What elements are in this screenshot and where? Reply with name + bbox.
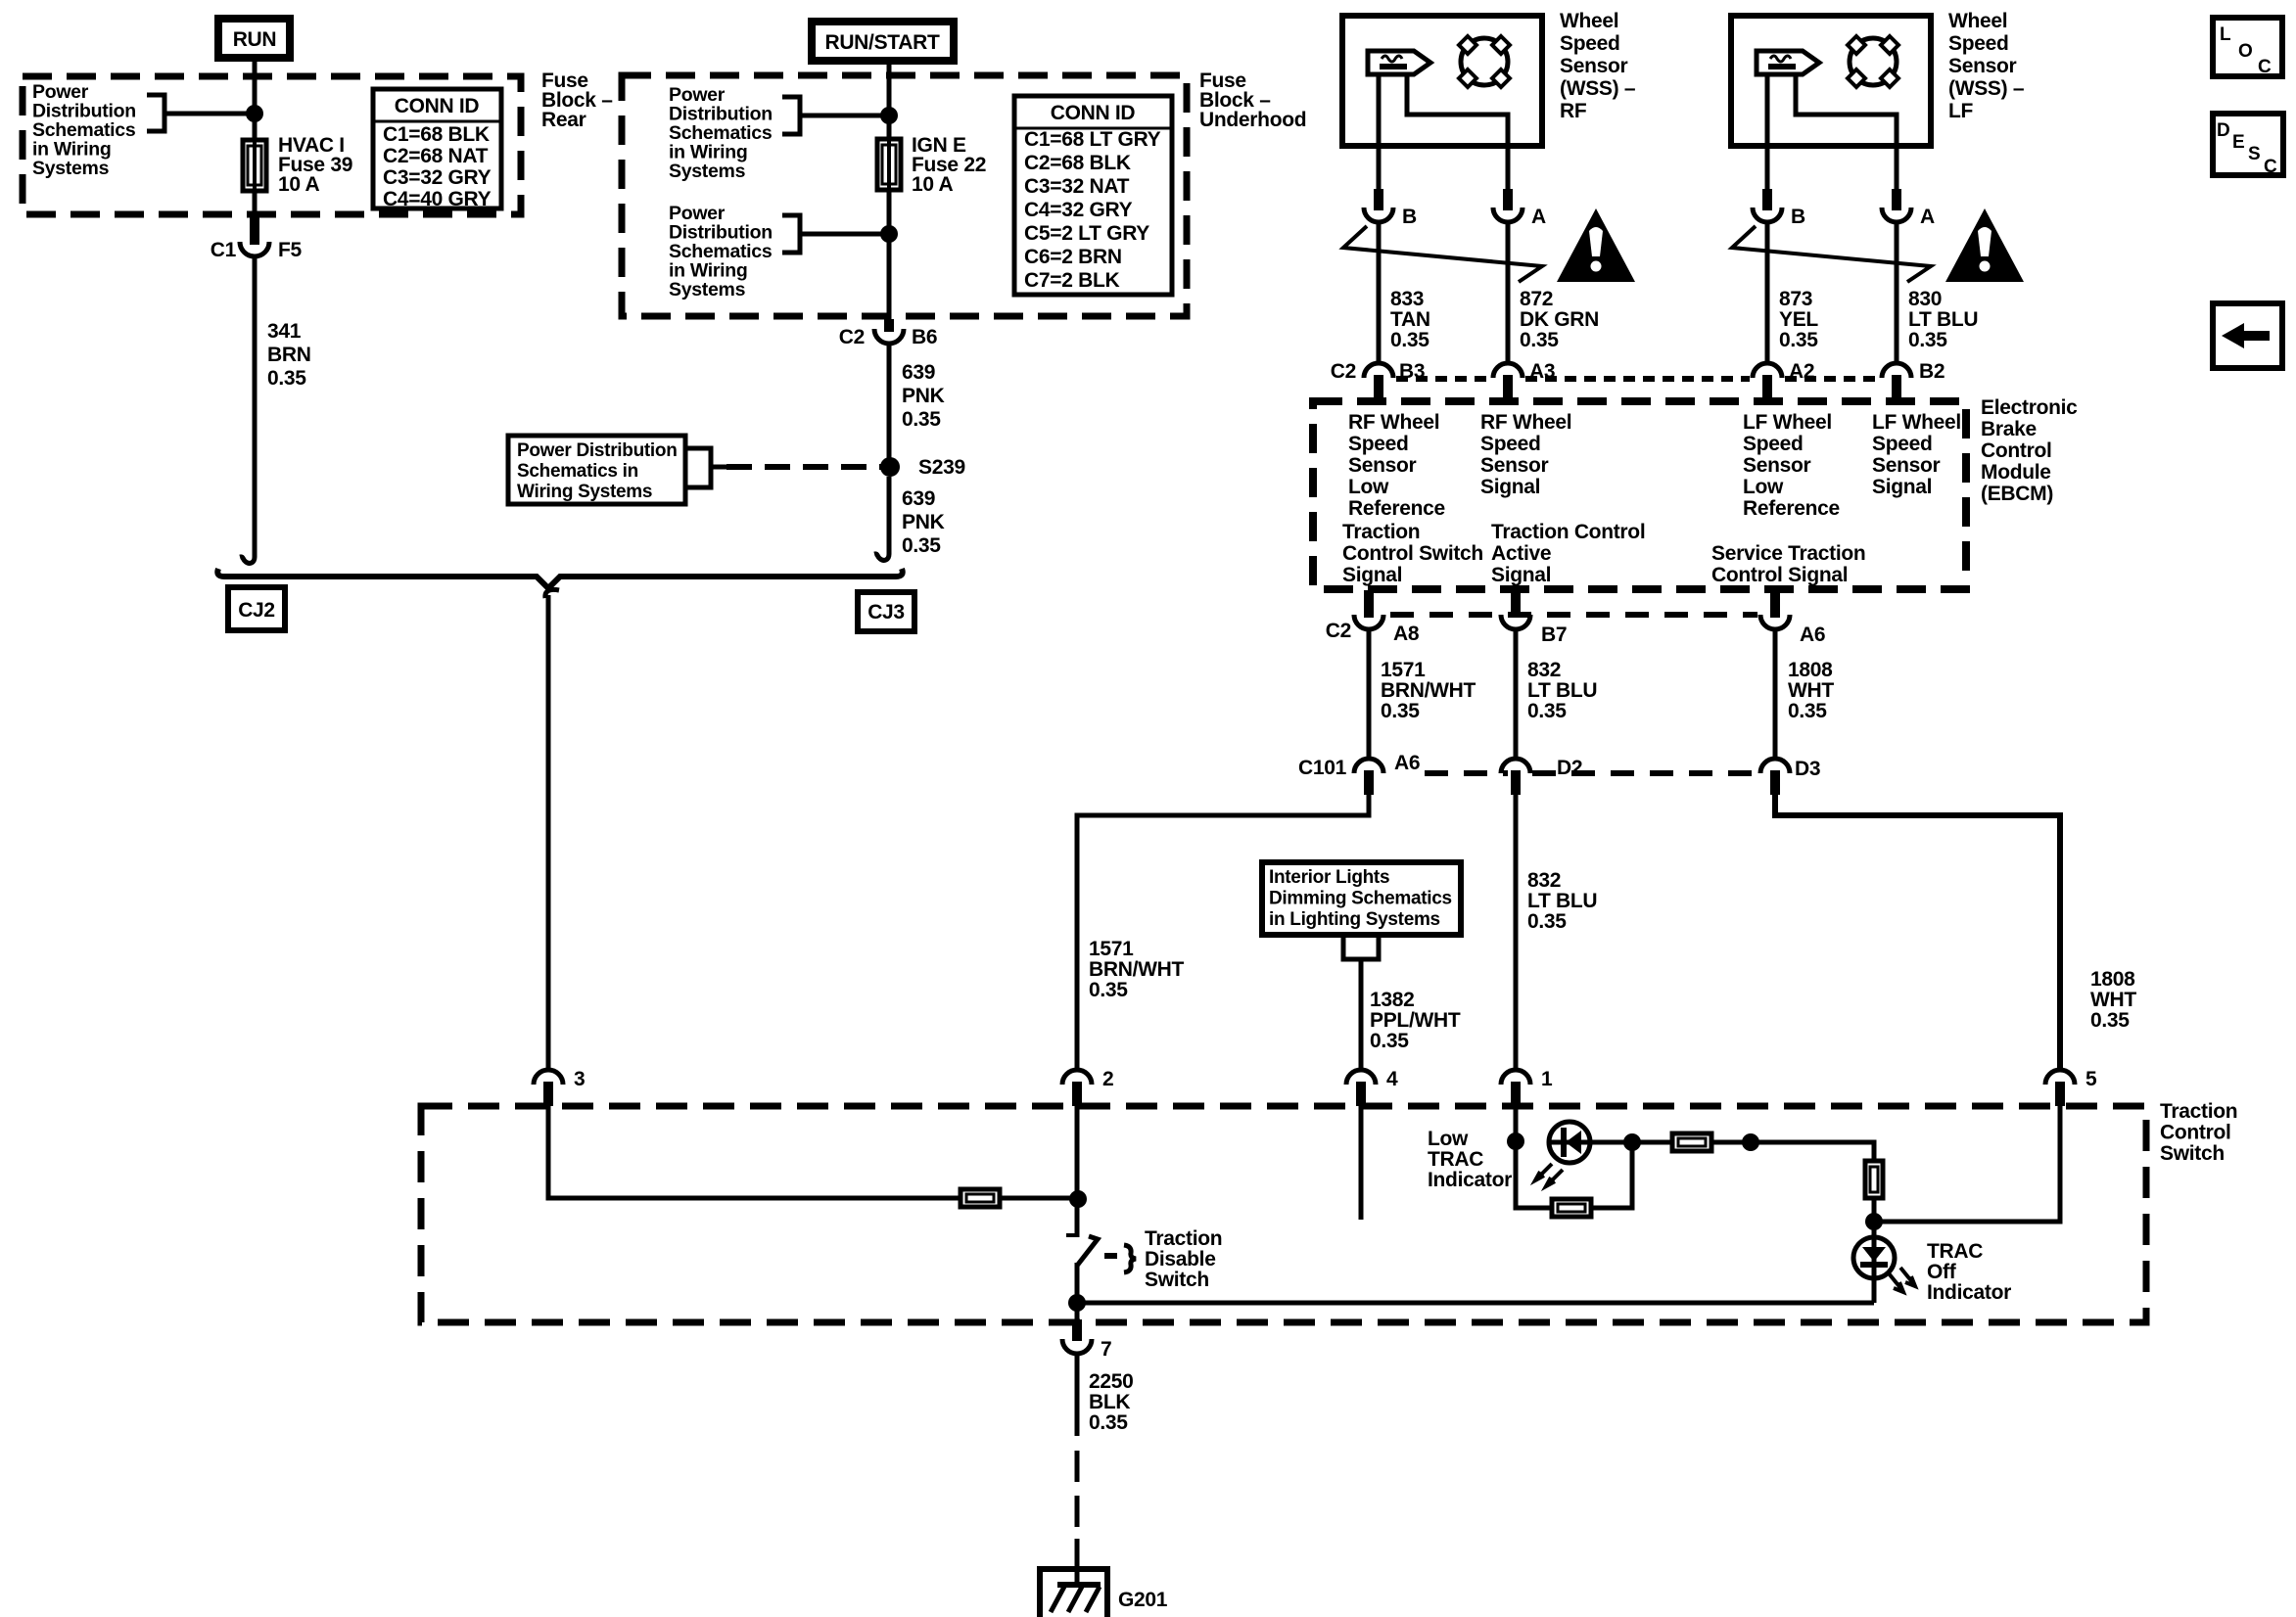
connector A6 exit [1770, 590, 1780, 618]
svg-text:C4=32 GRY: C4=32 GRY [1024, 199, 1133, 221]
svg-text:0.35: 0.35 [1381, 700, 1420, 722]
svg-text:Switch: Switch [1145, 1269, 1209, 1291]
svg-text:A: A [1531, 206, 1546, 228]
wire 832 LT BLU upper [1514, 629, 1519, 759]
svg-text:0.35: 0.35 [1370, 1030, 1409, 1052]
svg-text:Traction: Traction [1145, 1227, 1222, 1250]
svg-text:Systems: Systems [32, 158, 110, 179]
svg-text:Speed: Speed [1348, 433, 1409, 455]
dashed box Traction Control Switch [421, 1106, 2146, 1322]
svg-text:Switch: Switch [2160, 1142, 2225, 1165]
svg-text:WHT: WHT [2090, 989, 2136, 1011]
svg-text:0.35: 0.35 [1527, 910, 1567, 933]
legend box back arrow [2213, 303, 2282, 368]
svg-text:Systems: Systems [669, 161, 746, 182]
connector pin 4 [1346, 1070, 1376, 1085]
wire pin 2 leg [1075, 1104, 1080, 1237]
LED TRAC off indicator [1853, 1237, 1895, 1278]
svg-text:LT BLU: LT BLU [1527, 679, 1597, 702]
svg-text:BRN/WHT: BRN/WHT [1381, 679, 1476, 702]
connector D2 [1501, 759, 1530, 773]
svg-text:in Lighting Systems: in Lighting Systems [1269, 909, 1440, 930]
box Interior Lights Dimming Schematics [1262, 862, 1461, 935]
table CONN ID rear [373, 89, 501, 208]
connector B2 [1882, 363, 1911, 378]
svg-text:TAN: TAN [1390, 308, 1430, 331]
svg-text:Sensor: Sensor [1480, 454, 1549, 477]
svg-text:0.35: 0.35 [1520, 329, 1559, 351]
svg-text:C: C [2264, 157, 2277, 177]
svg-text:Sensor: Sensor [1560, 55, 1628, 77]
svg-text:Service Traction: Service Traction [1711, 542, 1865, 565]
svg-text:832: 832 [1527, 659, 1561, 681]
wire pin 5 leg [1874, 1104, 2060, 1222]
connector pin 7 [1072, 1319, 1082, 1341]
svg-text:CONN ID: CONN ID [395, 95, 480, 117]
svg-text:B: B [1791, 206, 1805, 228]
svg-text:Low: Low [1348, 476, 1389, 498]
LED low TRAC indicator [1549, 1122, 1590, 1163]
fuse IGN E Fuse 22 10A [877, 139, 901, 190]
svg-text:Speed: Speed [1480, 433, 1541, 455]
wire 639 PNK upper [887, 344, 892, 458]
svg-text:Reference: Reference [1743, 497, 1840, 520]
svg-text:Underhood: Underhood [1199, 109, 1306, 131]
svg-text:1808: 1808 [1788, 659, 1833, 681]
svg-text:3: 3 [574, 1068, 585, 1090]
box CJ3 [858, 592, 914, 631]
wire below switch [1075, 1263, 1080, 1321]
svg-text:C: C [2258, 57, 2272, 77]
svg-text:10 A: 10 A [912, 173, 954, 196]
svg-text:Speed: Speed [1872, 433, 1933, 455]
svg-text:(WSS) –: (WSS) – [1560, 77, 1636, 100]
bracket upper [782, 97, 800, 134]
svg-text:A8: A8 [1393, 623, 1420, 645]
svg-text:LF Wheel: LF Wheel [1872, 411, 1961, 434]
svg-text:Signal: Signal [1480, 476, 1540, 498]
vertical fuse resistor [1865, 1161, 1883, 1198]
wire RUN to fuse 39 [253, 62, 258, 196]
switch traction disable [1066, 1233, 1077, 1237]
wire pin 3 leg [548, 1104, 1077, 1198]
wire RUN/START to fuse 22 [887, 65, 892, 195]
svg-text:Power Distribution: Power Distribution [517, 440, 678, 461]
junction below switch [1068, 1294, 1086, 1312]
bracket to power distribution text [147, 95, 164, 131]
svg-text:RF: RF [1560, 100, 1587, 122]
warning triangle LF [1945, 208, 2024, 282]
connector pin 2 [1062, 1070, 1092, 1085]
wire pin 4 leg [1359, 1104, 1364, 1220]
wire 1808 WHT upper [1773, 629, 1778, 759]
svg-text:2: 2 [1102, 1068, 1113, 1090]
junction before vertical resistor [1742, 1133, 1759, 1151]
svg-text:RF Wheel: RF Wheel [1348, 411, 1439, 434]
svg-text:0.35: 0.35 [902, 408, 941, 431]
fuse after low trac [1672, 1133, 1711, 1151]
svg-text:BLK: BLK [1089, 1391, 1130, 1413]
svg-text:Module: Module [1981, 461, 2051, 484]
svg-text:A: A [1920, 206, 1935, 228]
svg-text:CJ2: CJ2 [238, 599, 275, 622]
connector C2 A8 [1364, 590, 1374, 618]
wire D3 jog to pin 5 [1775, 795, 2060, 1070]
dashed box Fuse Block - Underhood [622, 75, 1187, 316]
power rail box RUN/START [812, 22, 954, 61]
svg-text:B6: B6 [912, 326, 937, 348]
svg-text:Traction: Traction [1342, 521, 1420, 543]
svg-text:Signal: Signal [1342, 564, 1402, 586]
svg-text:C1=68 LT GRY: C1=68 LT GRY [1024, 128, 1161, 151]
hook bus tap down [545, 589, 559, 598]
svg-text:LT BLU: LT BLU [1908, 308, 1978, 331]
svg-text:C3=32 NAT: C3=32 NAT [1024, 175, 1130, 198]
svg-text:B2: B2 [1919, 360, 1945, 383]
connector C2 B6 [884, 319, 894, 332]
svg-text:0.35: 0.35 [902, 534, 941, 557]
twisted pair marker LF [1732, 226, 1931, 282]
LED bypass resistor loop [1516, 1141, 1632, 1208]
bracket splice ref [687, 448, 711, 487]
svg-text:F5: F5 [278, 239, 303, 261]
connector line C2 of EBCM [1396, 376, 1490, 382]
wire RF sensor left lead [1377, 74, 1382, 192]
power rail box RUN [218, 19, 290, 58]
fuse in pin3 branch [961, 1189, 1000, 1207]
svg-text:D2: D2 [1557, 757, 1582, 779]
svg-text:832: 832 [1527, 869, 1561, 892]
svg-text:PNK: PNK [902, 385, 945, 407]
svg-text:1808: 1808 [2090, 968, 2135, 991]
connector C1 F5 [250, 217, 259, 245]
svg-text:C6=2 BRN: C6=2 BRN [1024, 246, 1122, 268]
junction pin2/pin3 [1069, 1190, 1087, 1208]
svg-text:873: 873 [1779, 288, 1812, 310]
svg-text:Wiring Systems: Wiring Systems [517, 482, 652, 502]
wheel speed sensor box WSS-RF [1342, 16, 1542, 146]
wire bracket to RUN feed [164, 112, 255, 116]
wire bracket upper to feed [800, 114, 889, 118]
svg-text:0.35: 0.35 [1089, 1411, 1128, 1434]
svg-text:0.35: 0.35 [1390, 329, 1429, 351]
svg-text:S239: S239 [918, 456, 965, 479]
svg-text:0.35: 0.35 [1779, 329, 1818, 351]
junction pin1 low trac [1507, 1132, 1524, 1150]
svg-text:872: 872 [1520, 288, 1553, 310]
connector D3 [1760, 759, 1790, 773]
svg-text:341: 341 [267, 320, 302, 343]
svg-text:Wheel: Wheel [1560, 10, 1618, 32]
svg-text:Brake: Brake [1981, 418, 2037, 440]
svg-text:0.35: 0.35 [267, 367, 306, 390]
svg-text:0.35: 0.35 [1089, 979, 1128, 1001]
svg-text:WHT: WHT [1788, 679, 1834, 702]
wire switch junction to TRAC off indicator [1077, 1301, 1874, 1306]
wire 639 PNK lower [887, 477, 892, 551]
bus brace CJ2-CJ3 [217, 569, 903, 588]
connector LF pin A [1892, 189, 1901, 210]
svg-text:0.35: 0.35 [1908, 329, 1947, 351]
svg-text:B7: B7 [1541, 624, 1567, 646]
ground symbol G201 [1040, 1569, 1107, 1617]
svg-text:Speed: Speed [1743, 433, 1804, 455]
svg-text:Control: Control [1981, 439, 2052, 462]
svg-text:A6: A6 [1394, 752, 1420, 774]
wire hook at bus [240, 536, 255, 563]
connector line C101 [1425, 770, 1508, 776]
svg-text:Low: Low [1743, 476, 1784, 498]
svg-text:Disable: Disable [1145, 1248, 1216, 1270]
svg-text:Control: Control [2160, 1122, 2231, 1144]
connector C2 B3 [1364, 363, 1393, 378]
splice S239 [880, 457, 900, 477]
wire TRAC off to bottom rail [1872, 1278, 1877, 1303]
svg-text:Indicator: Indicator [1428, 1169, 1512, 1191]
wire 1382 PPL/WHT to pin 4 [1359, 959, 1364, 1070]
legend box DESC [2213, 114, 2283, 175]
svg-text:LF: LF [1948, 100, 1974, 122]
dashed link to switch bracket [1104, 1253, 1117, 1259]
svg-text:7: 7 [1101, 1338, 1111, 1361]
svg-text:639: 639 [902, 361, 935, 384]
svg-text:4: 4 [1386, 1068, 1398, 1090]
svg-text:Sensor: Sensor [1743, 454, 1811, 477]
connector RF pin A [1503, 189, 1513, 210]
svg-text:A2: A2 [1789, 360, 1814, 383]
svg-text:C2: C2 [839, 326, 865, 348]
svg-text:PPL/WHT: PPL/WHT [1370, 1009, 1461, 1032]
svg-text:C2: C2 [1326, 620, 1351, 642]
svg-text:Sensor: Sensor [1948, 55, 2017, 77]
svg-text:2250: 2250 [1089, 1370, 1134, 1393]
wire C101-A6 jog to pin 2 [1077, 795, 1369, 1070]
svg-text:A3: A3 [1529, 360, 1555, 383]
svg-text:D: D [2217, 120, 2229, 141]
wire 833 TAN [1377, 222, 1382, 363]
svg-text:LT BLU: LT BLU [1527, 890, 1597, 912]
svg-text:0.35: 0.35 [2090, 1009, 2130, 1032]
connector C101 A6 [1354, 759, 1383, 773]
svg-text:Off: Off [1927, 1261, 1957, 1283]
wire LED to fuse2 [1632, 1140, 1751, 1145]
svg-text:B: B [1402, 206, 1417, 228]
svg-text:RUN: RUN [233, 28, 277, 51]
svg-text:Signal: Signal [1872, 476, 1932, 498]
connector pin 3 [534, 1070, 563, 1085]
connector line C2 exits [1390, 612, 1757, 618]
junction TRAC off top [1865, 1213, 1883, 1230]
svg-text:O: O [2238, 41, 2252, 62]
svg-text:Control Signal: Control Signal [1711, 564, 1848, 586]
svg-text:DK GRN: DK GRN [1520, 308, 1599, 331]
svg-text:E: E [2232, 132, 2244, 153]
svg-text:BRN: BRN [267, 344, 311, 366]
svg-text:C2=68 NAT: C2=68 NAT [383, 145, 489, 167]
wire 830 LT BLU [1895, 222, 1899, 363]
wheel speed sensor box WSS-LF [1731, 16, 1931, 146]
svg-text:1382: 1382 [1370, 989, 1415, 1011]
junction upper [880, 107, 898, 124]
svg-text:Systems: Systems [669, 279, 746, 300]
wire pin 7 to ground [1075, 1354, 1080, 1436]
connector RF pin B [1374, 189, 1383, 210]
svg-text:(WSS) –: (WSS) – [1948, 77, 2025, 100]
svg-text:Control Switch: Control Switch [1342, 542, 1483, 565]
svg-text:0.35: 0.35 [1788, 700, 1827, 722]
junction on RUN feed [246, 105, 263, 122]
connector A2 [1753, 363, 1782, 378]
wire 1571 BRN/WHT upper [1367, 629, 1372, 759]
svg-text:CONN ID: CONN ID [1051, 102, 1136, 124]
svg-text:L: L [2220, 24, 2231, 45]
svg-text:Indicator: Indicator [1927, 1281, 2011, 1304]
fuse bypass [1552, 1199, 1591, 1217]
svg-text:Electronic: Electronic [1981, 396, 2078, 419]
connector LF pin B [1762, 189, 1772, 210]
svg-text:1571: 1571 [1381, 659, 1426, 681]
svg-text:B3: B3 [1399, 360, 1425, 383]
svg-text:C1: C1 [211, 239, 237, 261]
svg-text:5: 5 [2085, 1068, 2097, 1090]
svg-text:YEL: YEL [1779, 308, 1818, 331]
svg-text:(EBCM): (EBCM) [1981, 483, 2053, 505]
wire 872 DK GRN [1506, 222, 1511, 363]
connector pin 1 [1501, 1070, 1530, 1085]
svg-text:C3=32 GRY: C3=32 GRY [383, 166, 492, 189]
connector pin 5 [2045, 1070, 2075, 1085]
svg-text:TRAC: TRAC [1428, 1148, 1483, 1171]
wire to vertical resistor [1751, 1142, 1874, 1278]
connector A3 [1493, 363, 1523, 378]
bracket below interior lights box [1343, 938, 1379, 959]
svg-text:C5=2 LT GRY: C5=2 LT GRY [1024, 222, 1149, 245]
svg-text:BRN/WHT: BRN/WHT [1089, 958, 1185, 981]
svg-text:1571: 1571 [1089, 938, 1134, 960]
svg-text:TRAC: TRAC [1927, 1240, 1983, 1263]
wire 341 BRN to bus CJ2 [253, 256, 258, 554]
svg-text:C2=68 BLK: C2=68 BLK [1024, 152, 1131, 174]
svg-text:C2: C2 [1331, 360, 1356, 383]
twisted pair marker RF [1343, 226, 1542, 282]
svg-text:Low: Low [1428, 1128, 1469, 1150]
svg-text:Reference: Reference [1348, 497, 1445, 520]
svg-text:Traction: Traction [2160, 1100, 2237, 1123]
svg-text:C7=2 BLK: C7=2 BLK [1024, 269, 1120, 292]
svg-text:Signal: Signal [1491, 564, 1551, 586]
dashed wire to S239 [726, 464, 881, 470]
svg-text:0.35: 0.35 [1527, 700, 1567, 722]
table CONN ID underhood [1014, 96, 1172, 295]
box CJ2 [228, 587, 285, 630]
junction lower [880, 225, 898, 243]
wire D2 to pin 1 [1514, 795, 1519, 1070]
svg-text:Sensor: Sensor [1872, 454, 1941, 477]
svg-text:G201: G201 [1118, 1589, 1168, 1611]
tone ring symbol RF [1461, 38, 1508, 85]
wire 873 YEL [1765, 222, 1770, 363]
wire fuse to connector C1 F5 [253, 193, 258, 221]
svg-text:Rear: Rear [541, 109, 586, 131]
svg-text:CJ3: CJ3 [867, 601, 905, 624]
svg-text:Schematics in: Schematics in [517, 461, 638, 482]
wire LF sensor right lead [1796, 74, 1897, 192]
svg-text:RUN/START: RUN/START [824, 31, 940, 54]
svg-text:C4=40 GRY: C4=40 GRY [383, 188, 492, 210]
wire RF sensor right lead [1407, 74, 1508, 192]
dashed box Electronic Brake Control Module EBCM [1313, 401, 1966, 589]
svg-text:Speed: Speed [1948, 32, 2009, 55]
warning triangle RF [1557, 208, 1635, 282]
wire bus tap to pin 3 [546, 595, 551, 1070]
svg-text:830: 830 [1908, 288, 1942, 310]
svg-text:10 A: 10 A [278, 173, 320, 196]
sensor element symbol LF [1757, 51, 1819, 74]
svg-text:C101: C101 [1298, 757, 1347, 779]
wire pin 1 leg [1514, 1104, 1519, 1141]
svg-text:1: 1 [1541, 1068, 1553, 1090]
box Power Distribution Schematics in Wiring Systems (splice ref) [508, 436, 685, 504]
wire LF sensor left lead [1765, 74, 1770, 192]
svg-text:Speed: Speed [1560, 32, 1620, 55]
tone ring symbol LF [1850, 38, 1897, 85]
connector B7 [1511, 590, 1521, 618]
junction after LED [1623, 1133, 1641, 1151]
svg-text:833: 833 [1390, 288, 1424, 310]
svg-text:LF Wheel: LF Wheel [1743, 411, 1832, 434]
svg-text:RF Wheel: RF Wheel [1480, 411, 1571, 434]
svg-text:Traction Control: Traction Control [1491, 521, 1645, 543]
svg-text:S: S [2248, 144, 2260, 164]
svg-text:Wheel: Wheel [1948, 10, 2007, 32]
sensor element symbol RF [1368, 51, 1430, 74]
svg-text:Dimming Schematics: Dimming Schematics [1269, 889, 1452, 909]
legend box LOC [2213, 18, 2282, 76]
svg-text:A6: A6 [1800, 624, 1825, 646]
wire hook at bus CJ3 [874, 533, 889, 560]
svg-text:PNK: PNK [902, 511, 945, 533]
bracket lower [782, 215, 800, 253]
fuse HVAC I Fuse 39 10A [243, 140, 266, 191]
wire bracket lower to feed [800, 232, 889, 237]
light arrows low TRAC [1535, 1164, 1563, 1186]
svg-text:C1=68 BLK: C1=68 BLK [383, 123, 490, 146]
light arrows TRAC off [1889, 1268, 1915, 1292]
bracket of disable switch [1124, 1245, 1136, 1272]
svg-text:639: 639 [902, 487, 935, 510]
svg-text:Active: Active [1491, 542, 1551, 565]
svg-text:Interior Lights: Interior Lights [1269, 867, 1389, 888]
dashed box Fuse Block - Rear [23, 76, 521, 214]
svg-text:Sensor: Sensor [1348, 454, 1417, 477]
svg-text:D3: D3 [1795, 758, 1820, 780]
wire fuse to connector C2 B6 [887, 192, 892, 323]
